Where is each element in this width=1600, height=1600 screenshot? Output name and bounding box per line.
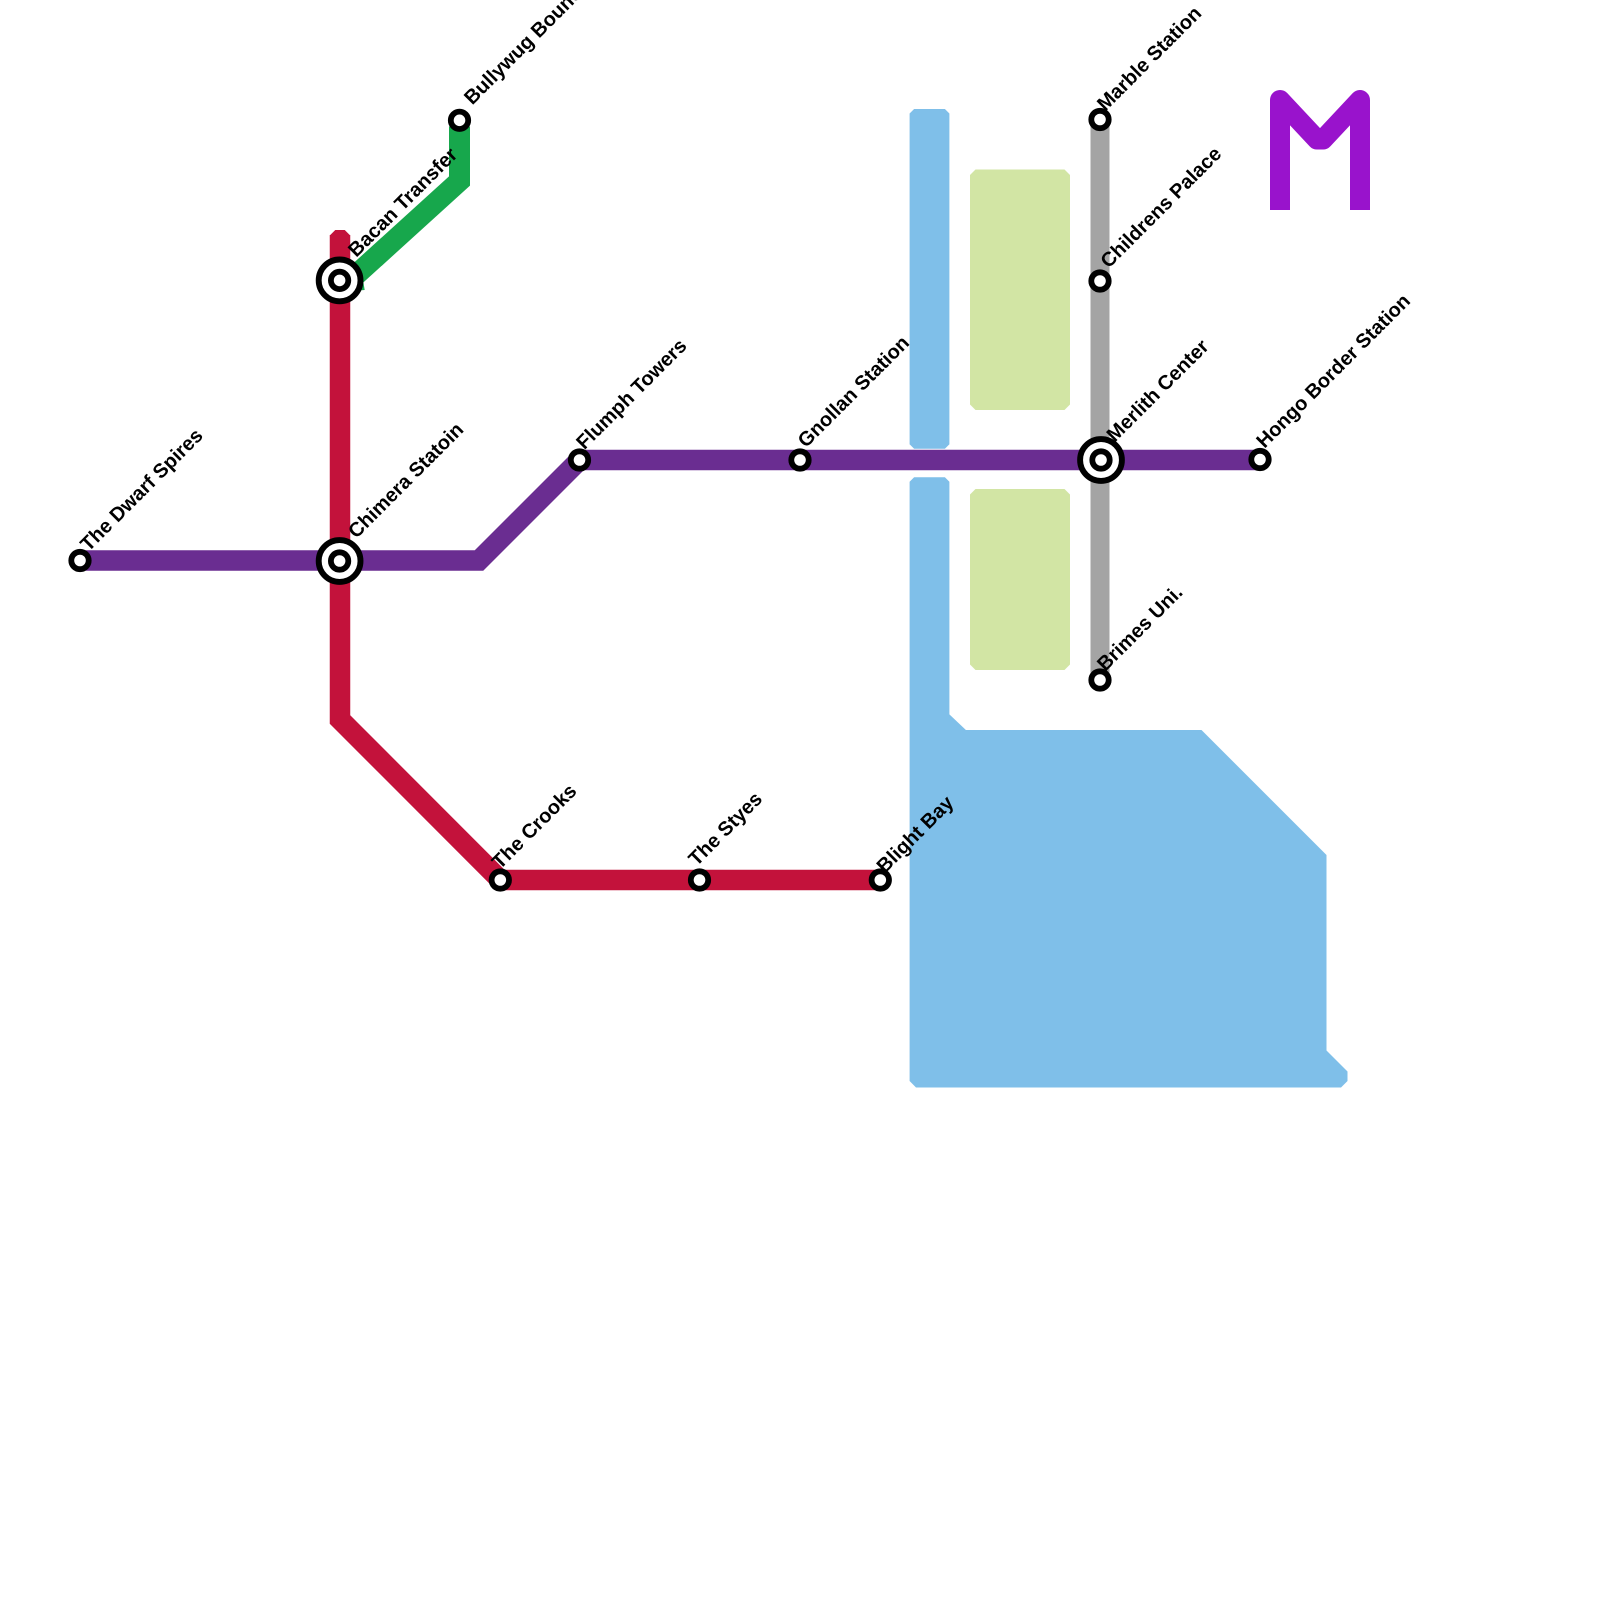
park north xyxy=(970,170,1070,411)
park south xyxy=(970,489,1070,670)
interchange Bacan Transfer xyxy=(319,260,361,302)
station Childrens Palace xyxy=(1091,272,1108,289)
svg-text:The Styes: The Styes xyxy=(685,788,767,870)
station The Dwarf Spires xyxy=(71,552,88,569)
red line xyxy=(340,235,880,880)
station Flumph Towers xyxy=(571,451,588,468)
river upper segment xyxy=(910,109,950,449)
purple line xyxy=(80,460,1260,561)
station The Styes xyxy=(691,871,708,888)
station Brimes Uni. xyxy=(1091,671,1108,688)
red line top chamfered cap xyxy=(330,230,350,236)
gray line Marble-Brimes xyxy=(1091,120,1110,681)
interchange Merlith Center xyxy=(1080,439,1122,481)
svg-text:The Dwarf Spires: The Dwarf Spires xyxy=(76,425,207,556)
svg-text:Marble Station: Marble Station xyxy=(1093,2,1206,115)
svg-text:The Crooks: The Crooks xyxy=(488,780,581,873)
svg-text:Flumph Towers: Flumph Towers xyxy=(572,335,691,454)
station Bullywug Bounce xyxy=(451,112,468,129)
svg-text:Gnollan Station: Gnollan Station xyxy=(794,332,914,452)
interchange Chimera Statoin xyxy=(319,540,361,582)
green line Bullywug-Bacan xyxy=(351,127,460,280)
svg-text:Hongo Border Station: Hongo Border Station xyxy=(1252,290,1414,452)
river lower segment and bay xyxy=(910,477,1348,1087)
station Blight Bay xyxy=(872,871,889,888)
svg-text:Childrens Palace: Childrens Palace xyxy=(1097,143,1227,273)
station Marble Station xyxy=(1091,111,1108,128)
station Gnollan Station xyxy=(791,451,808,468)
svg-text:Merlith Center: Merlith Center xyxy=(1103,335,1214,446)
svg-text:Chimera Statoin: Chimera Statoin xyxy=(344,419,468,543)
svg-text:Bullywug Bounce: Bullywug Bounce xyxy=(460,0,594,109)
station The Crooks xyxy=(492,871,509,888)
green line end sliver xyxy=(352,266,365,291)
metro logo M xyxy=(1280,100,1360,210)
station Hongo Border Station xyxy=(1251,451,1268,468)
